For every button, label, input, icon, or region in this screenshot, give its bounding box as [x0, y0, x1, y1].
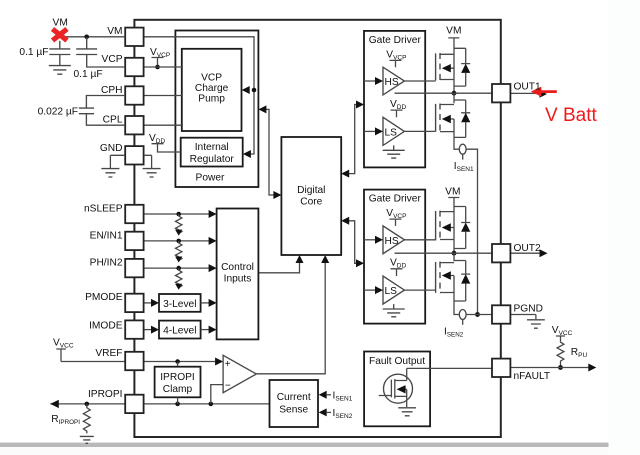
- wire Digital Core to Gate Driver 1: [341, 101, 364, 178]
- body diode D2 low-side: [454, 100, 470, 137]
- pin VM: [107, 26, 143, 46]
- pin IPROPI: [88, 389, 144, 413]
- svg-text:Gate Driver: Gate Driver: [369, 193, 422, 204]
- svg-text:0.022 µF: 0.022 µF: [38, 106, 78, 117]
- wire nFAULT external arrow: [510, 364, 596, 372]
- ground fault output: [398, 408, 416, 416]
- wire CPH pin to charge pump: [144, 95, 182, 97]
- VM feedback wire to charge pump and regulator: [144, 37, 257, 158]
- wire nSLEEP to Control Inputs: [144, 210, 217, 218]
- svg-text:4-Level: 4-Level: [163, 326, 196, 337]
- ground RIPROPI: [80, 436, 94, 443]
- wire fault output to nFAULT pin: [407, 367, 492, 369]
- svg-text:Sense: Sense: [279, 404, 308, 415]
- svg-text:+: +: [225, 359, 231, 370]
- supply VDD near GND pin: [149, 133, 181, 152]
- wire inverting input: [211, 385, 223, 404]
- wire IMODE to 4-Level: [144, 326, 159, 334]
- buffer HS 1: [364, 67, 436, 95]
- Power block box: [175, 31, 258, 188]
- pin OUT1: [492, 82, 541, 103]
- svg-text:VM: VM: [446, 26, 461, 37]
- wire CPL pin to charge pump: [144, 124, 182, 126]
- svg-text:Clamp: Clamp: [163, 384, 193, 395]
- svg-text:Gate Driver: Gate Driver: [369, 35, 422, 46]
- svg-text:LS: LS: [385, 286, 398, 297]
- svg-text:LS: LS: [385, 127, 398, 138]
- svg-text:EN/IN1: EN/IN1: [90, 231, 123, 242]
- svg-text:OUT1: OUT1: [514, 82, 542, 93]
- ground in gate driver 2: [383, 304, 405, 317]
- svg-text:Control: Control: [221, 262, 254, 273]
- wire VREF row: [61, 358, 223, 367]
- svg-text:PH/IN2: PH/IN2: [90, 258, 123, 269]
- pin EN/IN1: [90, 231, 144, 251]
- svg-text:ISEN1: ISEN1: [333, 391, 353, 403]
- Gate Driver 1 box: [364, 31, 425, 168]
- pin nFAULT: [492, 359, 550, 383]
- svg-text:CPL: CPL: [103, 115, 123, 126]
- capacitor C3 0.022uF CPH to CPL: [38, 96, 126, 126]
- VCP Charge Pump box: [182, 49, 242, 131]
- pin VREF: [95, 348, 143, 370]
- pin PMODE: [85, 292, 143, 312]
- svg-text:IMODE: IMODE: [89, 321, 123, 332]
- ground GND right: [143, 155, 161, 177]
- svg-text:VVCC: VVCC: [53, 338, 74, 350]
- svg-text:VM: VM: [445, 187, 460, 198]
- pin PGND: [492, 304, 543, 324]
- ground GND left: [101, 155, 125, 177]
- pin IMODE: [89, 320, 144, 338]
- red probe arrow V Batt at OUT1: [531, 87, 557, 97]
- transistor Q3 high-side OUT2: [436, 211, 454, 241]
- body diode D1 high-side: [454, 48, 470, 86]
- pin nSLEEP: [84, 204, 144, 224]
- wire 3-Level to Control Inputs: [201, 299, 217, 307]
- transistor Q4 low-side OUT2: [436, 253, 454, 301]
- Gate Driver 2 box: [364, 190, 425, 324]
- current sense element ISEN1: [454, 137, 474, 173]
- supply VVCP near VCP pin: [150, 47, 170, 69]
- wire Digital Core to Gate Driver 2: [341, 217, 364, 267]
- svg-text:RPU: RPU: [571, 347, 588, 359]
- ground in gate driver 1: [383, 145, 405, 158]
- body diode D3 high-side: [454, 207, 470, 249]
- wire OUT1 external with black arrow: [510, 90, 547, 97]
- wire PH/IN2 to Control Inputs: [144, 264, 217, 272]
- wire ISEN1 to PGND net: [466, 149, 480, 317]
- svg-text:VVCC: VVCC: [552, 325, 573, 337]
- svg-text:VM: VM: [107, 26, 122, 37]
- svg-text:PMODE: PMODE: [85, 292, 123, 303]
- resistor RPU pull-up: [557, 341, 587, 370]
- svg-text:Power: Power: [196, 173, 225, 184]
- svg-text:ISEN2: ISEN2: [333, 408, 353, 420]
- pin CPL: [103, 115, 144, 135]
- ground C1: [49, 66, 71, 75]
- 4-Level box: [159, 321, 201, 339]
- page bottom edge gray band: [0, 443, 609, 447]
- svg-text:Digital: Digital: [297, 185, 325, 196]
- IC boundary U1: [134, 20, 500, 437]
- svg-text:V Batt: V Batt: [545, 105, 597, 126]
- svg-text:PGND: PGND: [514, 304, 543, 315]
- node OUT2 switch node: [395, 251, 493, 256]
- svg-text:ISEN1: ISEN1: [454, 161, 474, 173]
- wire EN/IN1 to Control Inputs: [144, 237, 217, 245]
- svg-text:0.1 µF: 0.1 µF: [74, 69, 103, 80]
- pin CPH: [101, 85, 144, 105]
- IPROPI Clamp box: [155, 367, 201, 398]
- wire 4-Level to Control Inputs: [201, 326, 217, 334]
- wire VCP pin to charge pump: [144, 66, 182, 68]
- svg-text:GND: GND: [100, 143, 123, 154]
- svg-text:VCP: VCP: [102, 54, 123, 65]
- supply VCC at RPU: [552, 325, 573, 342]
- buffer LS 2: [364, 276, 436, 304]
- buffer LS 1: [364, 117, 436, 145]
- svg-text:IPROPI: IPROPI: [88, 389, 123, 400]
- transistor Q5 open-drain fault: [379, 368, 413, 407]
- svg-text:Pump: Pump: [198, 93, 225, 104]
- capacitor C2 0.1uF VM to VCP: [74, 37, 126, 80]
- wire VM supply row: [60, 35, 125, 40]
- svg-text:0.1 µF: 0.1 µF: [19, 47, 48, 58]
- wire PMODE to 3-Level: [144, 299, 159, 307]
- svg-text:HS: HS: [385, 77, 399, 88]
- svg-text:Fault Output: Fault Output: [369, 356, 425, 367]
- supply VVCP in gate driver 2: [386, 208, 406, 226]
- svg-text:Regulator: Regulator: [190, 154, 235, 165]
- supply VDD in gate driver 2: [390, 258, 406, 276]
- Control Inputs box: [217, 209, 259, 340]
- wire Power to Digital Core: [258, 105, 281, 199]
- supply VCC at VREF: [53, 338, 74, 362]
- supply VM bridge 2: [445, 187, 460, 254]
- svg-text:IPROPI: IPROPI: [160, 372, 195, 383]
- supply VM bridge 1: [446, 26, 461, 94]
- buffer HS 2: [364, 226, 436, 254]
- svg-text:Core: Core: [300, 197, 322, 208]
- svg-text:3-Level: 3-Level: [163, 299, 196, 310]
- page background right strip: [609, 0, 640, 455]
- pin GND: [100, 143, 144, 165]
- pin VCP: [102, 54, 144, 76]
- svg-text:VM: VM: [53, 17, 68, 28]
- svg-text:nSLEEP: nSLEEP: [84, 204, 123, 215]
- capacitor C1 0.1uF at VM: [19, 41, 70, 66]
- input ISEN2 to current sense: [319, 408, 353, 420]
- Digital Core box: [281, 137, 341, 255]
- wire ISEN2 to PGND pin: [466, 314, 492, 316]
- svg-text:nFAULT: nFAULT: [514, 371, 551, 382]
- node OUT1 switch node: [395, 91, 493, 96]
- wire comparator output to Digital Core: [256, 255, 329, 374]
- svg-text:HS: HS: [385, 236, 399, 247]
- pulldown resistor on PH/IN2: [175, 268, 182, 290]
- pulldown resistor on nSLEEP: [175, 214, 182, 236]
- pulldown resistor on EN/IN1: [175, 241, 182, 263]
- supply VM with red X mark: [53, 17, 68, 40]
- resistor RIPROPI: [51, 404, 90, 433]
- svg-text:Current: Current: [277, 392, 311, 403]
- transistor Q2 low-side OUT1: [436, 93, 454, 137]
- svg-text:−: −: [225, 381, 231, 392]
- svg-text:CPH: CPH: [101, 85, 123, 96]
- op-amp comparator: [223, 355, 256, 392]
- current sense element ISEN2: [444, 301, 466, 338]
- transistor Q1 high-side OUT1: [436, 53, 454, 81]
- Fault Output box: [364, 352, 430, 427]
- svg-text:Internal: Internal: [195, 142, 229, 153]
- svg-text:VREF: VREF: [95, 348, 122, 359]
- Current Sense box: [270, 380, 319, 427]
- wire IPROPI row: [50, 397, 269, 408]
- body diode D4 low-side: [454, 261, 470, 302]
- svg-text:OUT2: OUT2: [514, 243, 542, 254]
- input ISEN1 to current sense: [319, 391, 353, 403]
- pin OUT2: [492, 243, 541, 262]
- svg-text:RIPROPI: RIPROPI: [51, 414, 80, 426]
- pin PH/IN2: [90, 258, 144, 278]
- supply VVCP in gate driver 1: [386, 49, 406, 67]
- wire OUT2 external arrow: [510, 249, 547, 257]
- ground at PGND: [510, 315, 544, 329]
- label V Batt: [545, 105, 597, 126]
- svg-text:Inputs: Inputs: [224, 274, 252, 285]
- svg-text:ISEN2: ISEN2: [444, 326, 464, 338]
- 3-Level box: [159, 294, 201, 312]
- supply VDD in gate driver 1: [390, 99, 406, 117]
- wire Control Inputs to Digital Core: [258, 255, 303, 273]
- Internal Regulator box: [181, 138, 243, 167]
